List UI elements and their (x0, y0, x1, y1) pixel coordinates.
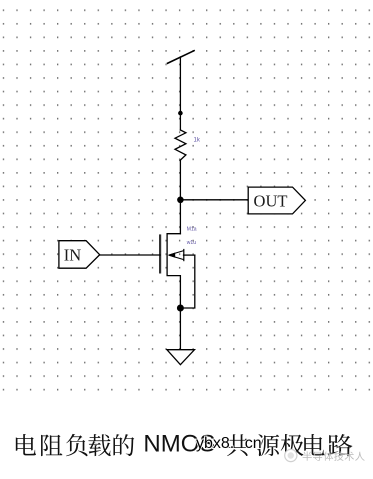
svg-text:1k: 1k (194, 138, 201, 144)
wire IN to gate (100, 254, 160, 256)
transistor M1 gate bar (159, 234, 161, 273)
node source junction dot (177, 305, 184, 312)
IN port flag (59, 241, 100, 269)
transistor M1 bulk arrow (168, 249, 195, 261)
node junction dot above resistor (178, 111, 183, 116)
resistor R1 (175, 130, 186, 160)
svg-text:IN: IN (64, 246, 81, 265)
ground (167, 350, 195, 365)
svg-text:OUT: OUT (254, 191, 288, 210)
svg-text:w1u: w1u (187, 240, 196, 246)
svg-text:ybx8.: ybx8. (196, 435, 234, 452)
wire VDD to resistor (179, 57, 181, 130)
wire source to ground (179, 308, 181, 350)
wire bulk to source node (180, 255, 194, 308)
transistor M1 channel with drain/source bends (167, 234, 180, 308)
svg-text:M1a: M1a (187, 227, 197, 233)
caption: 电阻负载的 NMOS 共源极电路 (16, 434, 36, 455)
watermark 半导体技术人 (303, 451, 312, 460)
node OUT junction dot (177, 197, 184, 204)
wire OUT node to drain (179, 200, 181, 234)
svg-text:cn: cn (245, 435, 262, 452)
wire node to OUT flag (180, 199, 248, 201)
wire resistor to OUT node (179, 160, 181, 199)
OUT port flag (248, 187, 305, 214)
power VDD bar (167, 50, 195, 63)
watermark logo circle (285, 449, 297, 461)
